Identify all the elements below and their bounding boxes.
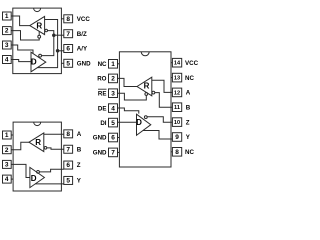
svg-text:3: 3 (5, 42, 9, 49)
svg-text:DI: DI (100, 120, 106, 127)
IC3 receiver R (137, 77, 152, 96)
svg-text:Y: Y (77, 178, 82, 185)
IC3 wire pin3 RE to enable bubble (118, 93, 147, 100)
svg-text:NC: NC (185, 75, 194, 82)
svg-text:7: 7 (66, 146, 70, 153)
IC2 wire bubble to pin7 B (47, 148, 64, 149)
IC2 pin 3 box (3, 160, 12, 168)
svg-text:NC: NC (185, 149, 194, 156)
IC3 pin 12 box (172, 88, 181, 97)
IC1 wire D output Y to node A/Y (37, 51, 57, 68)
IC1 pin 2 box (3, 27, 12, 35)
svg-text:11: 11 (174, 105, 180, 111)
svg-text:8: 8 (66, 16, 70, 23)
svg-text:B/Z: B/Z (77, 31, 87, 38)
IC3 body (119, 52, 171, 167)
IC1 pin 1 box (3, 12, 12, 20)
IC3 notch (141, 52, 149, 56)
IC1 junction node A/Y (56, 49, 60, 53)
svg-text:DE: DE (98, 105, 107, 112)
svg-text:14: 14 (174, 61, 181, 67)
IC3 wire pin4 DE to D enable (118, 108, 139, 114)
svg-text:GND: GND (77, 61, 91, 68)
IC1 pin 7 box (64, 30, 73, 38)
IC2 pin 2 box (3, 146, 12, 154)
svg-text:D: D (136, 118, 142, 127)
svg-text:7: 7 (66, 31, 70, 38)
svg-text:4: 4 (5, 57, 9, 64)
IC2 pin 1 box (3, 131, 14, 139)
svg-text:7: 7 (111, 150, 115, 157)
IC3 pin 1 box (109, 60, 120, 69)
IC2 wire Z bubble to pin6 (39, 169, 63, 172)
IC3 driver D (136, 114, 151, 135)
svg-text:6: 6 (111, 135, 115, 142)
IC1 body (13, 8, 62, 74)
IC3 pin 5 box (109, 118, 118, 127)
IC2 pin 7 box (64, 145, 73, 153)
IC3 wire pin5 DI to D input (118, 121, 137, 123)
svg-text:VCC: VCC (185, 60, 199, 67)
svg-text:R: R (36, 21, 42, 30)
svg-text:2: 2 (5, 147, 9, 154)
svg-text:Y: Y (186, 134, 191, 141)
IC1 RE bubble stub to R slant (38, 32, 40, 36)
svg-text:1: 1 (5, 132, 9, 139)
svg-text:A: A (186, 90, 191, 97)
IC3 pin 6 box (109, 133, 120, 142)
IC1 pin 4 box (3, 56, 12, 64)
IC3 wire D output Y to pin9 (143, 131, 173, 140)
svg-text:3: 3 (5, 162, 9, 169)
svg-text:8: 8 (66, 131, 70, 138)
svg-text:Z: Z (77, 162, 81, 169)
svg-text:1: 1 (5, 13, 9, 20)
IC1 wire bubble to node B/Z (48, 31, 54, 36)
IC1 pin 8 box (61, 15, 72, 23)
IC1 wire node to pin6 (58, 50, 64, 52)
svg-text:6: 6 (66, 46, 70, 53)
IC2 notch (34, 122, 41, 126)
IC3 RE enable bubble (145, 93, 148, 96)
IC3 pin 3 box (109, 89, 118, 98)
IC3 wire R top input to pin12 A (152, 80, 173, 92)
IC3 pin 2 box (109, 74, 118, 83)
IC3 pin 13 box (171, 73, 182, 82)
IC1 wire node down to D Z-bubble (42, 35, 54, 55)
IC1 receiver R (30, 16, 45, 34)
svg-text:8: 8 (175, 149, 179, 156)
IC2 D inverting output Z bubble (37, 171, 40, 174)
svg-text:5: 5 (66, 178, 70, 185)
svg-text:4: 4 (5, 176, 9, 183)
IC2 wire pin3 to D input (11, 164, 30, 177)
IC1 R inverting input bubble (45, 29, 48, 32)
svg-text:B: B (77, 146, 82, 153)
IC1 pin 6 box (64, 45, 73, 53)
IC1 wire pin1 to R output (11, 16, 30, 26)
svg-text:1: 1 (111, 61, 115, 68)
IC3 pin 10 box (172, 118, 181, 127)
IC1 wire node to pin7 (54, 34, 64, 36)
IC1 notch (34, 8, 41, 12)
svg-text:R: R (35, 138, 41, 147)
IC1 pin 5 box (61, 59, 72, 67)
IC3 wire pin2 RO to R output (118, 78, 138, 86)
IC1 D inverting output Z bubble (39, 54, 42, 57)
svg-text:Z: Z (186, 119, 190, 126)
IC1 pin 3 box (3, 41, 12, 49)
svg-text:9: 9 (175, 134, 179, 141)
svg-text:GND: GND (93, 150, 107, 157)
IC1 RE enable bubble (38, 35, 41, 38)
IC1 wire R top input to node A/Y (45, 20, 58, 51)
IC3 R inverting input bubble (152, 91, 155, 94)
IC3 pin 7 box (109, 148, 120, 157)
IC1 junction node B/Z (52, 33, 56, 37)
svg-text:D: D (31, 174, 37, 183)
IC2 R inverting input bubble (44, 147, 47, 150)
IC2 wire R output to pin2 (11, 142, 29, 150)
svg-text:5: 5 (111, 120, 115, 127)
IC3 D inverting output Z bubble (144, 116, 147, 119)
IC2 driver D (30, 167, 45, 187)
IC1 wire pin4 to D input (11, 60, 31, 62)
svg-text:3: 3 (111, 90, 115, 97)
svg-text:GND: GND (93, 135, 107, 142)
svg-text:A: A (77, 131, 82, 138)
IC3 wire Z bubble to pin10 Z (147, 117, 172, 123)
IC2 receiver R (29, 133, 44, 152)
IC3 pin 8 box (171, 148, 182, 157)
svg-text:2: 2 (111, 76, 115, 83)
svg-text:6: 6 (66, 162, 70, 169)
svg-text:NC: NC (98, 61, 107, 68)
svg-text:D: D (31, 58, 37, 67)
svg-text:VCC: VCC (77, 16, 91, 23)
IC2 pin 4 box (3, 175, 14, 183)
IC3 pin 4 box (109, 104, 118, 113)
IC1 driver D (31, 52, 46, 72)
svg-text:RE: RE (98, 90, 107, 97)
IC1 wire pin3 to D enable (11, 45, 33, 54)
IC1 wire pin2 to RE bubble (11, 31, 39, 40)
IC2 wire D output Y to pin5 (35, 183, 64, 185)
IC3 pin 9 box (172, 133, 181, 142)
svg-text:5: 5 (66, 61, 70, 68)
IC2 pin 8 box (64, 130, 73, 138)
IC3 wire bubble to pin11 B (155, 93, 173, 108)
svg-text:A/Y: A/Y (77, 46, 88, 53)
svg-text:4: 4 (111, 105, 115, 112)
svg-text:RO: RO (97, 76, 106, 83)
IC2 body (13, 122, 61, 191)
IC3 pin 14 box (171, 58, 182, 67)
svg-text:R: R (144, 81, 150, 90)
IC3 pin label RE with overline (98, 89, 107, 97)
IC2 pin 5 box (64, 176, 73, 184)
svg-text:B: B (186, 104, 191, 111)
svg-text:10: 10 (174, 120, 180, 126)
IC3 pin 11 box (172, 103, 181, 112)
svg-text:2: 2 (5, 28, 9, 35)
IC2 pin 6 box (64, 161, 73, 169)
svg-text:12: 12 (174, 90, 180, 96)
svg-text:13: 13 (174, 76, 180, 82)
IC2 wire pin8 A to R input (44, 133, 64, 135)
